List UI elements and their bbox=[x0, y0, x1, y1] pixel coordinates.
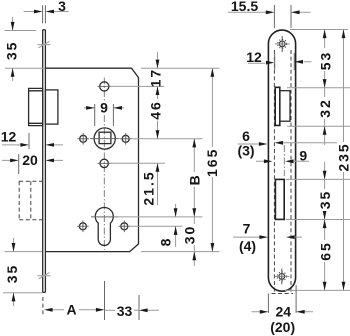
lock case outline bbox=[45, 68, 138, 251]
dimension 65 bbox=[324, 220, 326, 291]
latch bolt body (inside case) bbox=[45, 90, 58, 124]
dimension 53 bbox=[324, 30, 326, 88]
svg-text:24: 24 bbox=[276, 304, 292, 320]
dimension 32 bbox=[324, 88, 326, 145]
latch window bbox=[275, 87, 280, 125]
follower side hole right bbox=[122, 135, 129, 142]
svg-text:35: 35 bbox=[317, 190, 333, 210]
follower side hole left bbox=[80, 135, 87, 142]
top hole bbox=[100, 82, 109, 91]
leader from case top right bbox=[141, 67, 220, 69]
svg-text:9: 9 bbox=[100, 100, 108, 116]
svg-text:(20): (20) bbox=[270, 319, 295, 335]
leader plate bottom bbox=[285, 289, 350, 291]
svg-text:32: 32 bbox=[317, 98, 333, 118]
vertical centerline of case bbox=[103, 78, 105, 251]
label 6 (3) with arrows bbox=[238, 143, 350, 144]
svg-text:30: 30 bbox=[182, 225, 198, 245]
top screw hole bbox=[275, 36, 290, 52]
leader latch window top bbox=[287, 87, 350, 89]
dimension 21.5 bbox=[157, 163, 159, 205]
cylinder side hole left bbox=[79, 223, 86, 230]
dimension 165 bbox=[211, 68, 213, 251]
bottom screw hole bbox=[274, 269, 289, 285]
dimension 46 bbox=[157, 86, 159, 138]
dimension 24 (20) bbox=[268, 285, 296, 313]
deadbolt window bbox=[275, 179, 284, 219]
leader from follower line bbox=[132, 138, 203, 140]
dimension 8 (cylinder to side holes) bbox=[175, 204, 177, 247]
dimension 35 (top left) bbox=[5, 30, 37, 32]
svg-text:17: 17 bbox=[147, 68, 163, 88]
dimension 30 bbox=[193, 217, 195, 266]
svg-text:165: 165 bbox=[204, 148, 220, 177]
leader from top hole bbox=[110, 85, 164, 87]
strike box hidden outline (dashed) bbox=[272, 50, 294, 294]
cylinder side hole right bbox=[121, 223, 128, 230]
euro profile cylinder hole bbox=[95, 207, 113, 245]
svg-text:(3): (3) bbox=[237, 143, 254, 159]
label 7 (4) with arrows bbox=[233, 236, 302, 238]
plate outline bbox=[268, 30, 295, 291]
dimension B bbox=[193, 139, 195, 217]
leader deadbolt window bottom bbox=[286, 219, 350, 221]
follower (square spindle hub) bbox=[94, 128, 115, 149]
svg-text:235: 235 bbox=[335, 142, 350, 171]
svg-text:65: 65 bbox=[318, 241, 334, 261]
dimension 3 (faceplate thickness) top bbox=[43, 5, 46, 23]
label 12 with arrows bbox=[275, 53, 295, 70]
svg-text:B: B bbox=[186, 173, 202, 185]
dimension A (backset) bbox=[42, 297, 44, 315]
svg-text:21.5: 21.5 bbox=[140, 170, 156, 205]
leader from cylinder side holes bbox=[129, 225, 183, 227]
dimension 17 bbox=[157, 52, 159, 68]
faceplate strip bbox=[43, 30, 46, 293]
dimension 12 (latch protrusion) bbox=[28, 133, 30, 149]
dimension 35 bottom left bbox=[5, 251, 43, 253]
dimension 15.5 bbox=[274, 5, 291, 28]
hole below follower bbox=[100, 159, 108, 167]
svg-text:35: 35 bbox=[4, 264, 20, 284]
leader plate top bbox=[290, 29, 348, 31]
dimension 235 bbox=[343, 30, 345, 291]
svg-text:20: 20 bbox=[22, 152, 38, 168]
dimension 35 (right drawing) bbox=[324, 162, 326, 220]
svg-text:(4): (4) bbox=[239, 238, 256, 254]
leader from cylinder center bbox=[114, 216, 203, 218]
dimension 20 (deadbolt throw) bbox=[18, 154, 20, 174]
svg-text:15.5: 15.5 bbox=[231, 0, 258, 14]
svg-text:12: 12 bbox=[246, 49, 262, 65]
svg-text:46: 46 bbox=[147, 100, 163, 120]
svg-text:35: 35 bbox=[4, 41, 20, 61]
svg-text:3: 3 bbox=[58, 0, 66, 14]
leader from lower hole bbox=[110, 162, 165, 164]
svg-text:33: 33 bbox=[117, 303, 133, 319]
svg-text:53: 53 bbox=[318, 51, 334, 71]
faceplate break mark lower bbox=[38, 273, 51, 279]
faceplate break mark upper bbox=[38, 41, 51, 47]
latch bolt head (left of faceplate) bbox=[29, 88, 43, 125]
svg-text:8: 8 bbox=[158, 237, 174, 247]
deadbolt thrown (dashed) bbox=[19, 181, 43, 220]
leader latch window bottom bbox=[287, 125, 350, 127]
centerline near 9 dim bbox=[283, 145, 285, 176]
dimension 9 (right drawing) bbox=[256, 160, 309, 162]
svg-text:9: 9 bbox=[299, 148, 307, 164]
leader from case bottom bbox=[141, 251, 220, 253]
dimension 33 bbox=[138, 295, 140, 320]
svg-text:7: 7 bbox=[243, 221, 251, 237]
dimension 9 (square spindle) bbox=[95, 104, 114, 126]
svg-text:12: 12 bbox=[1, 129, 17, 145]
svg-text:A: A bbox=[66, 302, 76, 318]
leader deadbolt window top bbox=[286, 178, 350, 180]
